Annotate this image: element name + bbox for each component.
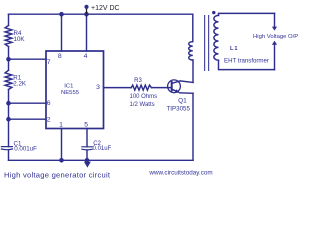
wire: +12V top rail <box>9 13 193 15</box>
svg-text:8: 8 <box>58 53 62 60</box>
transistor Q1 base bar <box>171 82 173 91</box>
svg-text:High Voltage O/P: High Voltage O/P <box>253 34 298 40</box>
power +12V stub dot <box>84 5 88 9</box>
svg-text:2: 2 <box>47 116 51 123</box>
transistor Q1 emitter arrowhead <box>175 89 180 93</box>
wire: pin 8 drop from rail <box>61 14 63 51</box>
wire: R4 to R1 <box>8 47 10 71</box>
wire: pin 2 <box>9 118 47 120</box>
svg-text:1/2 Watts: 1/2 Watts <box>130 102 155 108</box>
ground symbol arrow under C2 <box>84 162 91 168</box>
svg-text:www.circuitstoday.com: www.circuitstoday.com <box>148 169 212 176</box>
svg-text:NE555: NE555 <box>61 90 80 96</box>
wire: pin 1 drop to ground rail <box>61 129 63 161</box>
wire: output bottom arrow stem <box>274 45 276 70</box>
svg-text:0.001uF: 0.001uF <box>14 146 37 153</box>
wire: emitter vertical to ground rail <box>192 93 194 160</box>
wire: pin 6 <box>9 102 47 104</box>
svg-text:1: 1 <box>59 121 63 128</box>
svg-text:EHT transformer: EHT transformer <box>224 58 269 65</box>
junction dot: C2 at ground rail <box>85 158 90 163</box>
IC U1 box NE555 <box>46 51 104 129</box>
wire: left column top (rail to R4) <box>8 14 10 25</box>
wire: output top arrow stem <box>274 13 276 27</box>
svg-text:100 Ohms: 100 Ohms <box>130 94 158 100</box>
power +12V DC stub <box>86 7 88 14</box>
transistor Q1 circle <box>168 80 181 93</box>
junction dot: pin2 node on left column <box>6 117 11 122</box>
svg-text:10K: 10K <box>14 36 26 43</box>
transistor Q1 emitter lead <box>172 89 193 93</box>
svg-text:Q1: Q1 <box>178 98 187 105</box>
wire: pin 5 drop to C2 <box>86 129 88 147</box>
wire: C1 to bottom rail corner <box>8 150 10 160</box>
junction dot: pin7 node on left column <box>6 57 11 62</box>
resistor R3 <box>131 85 151 90</box>
wire: secondary top to output corner <box>219 13 275 15</box>
wire: bottom ground rail <box>9 159 194 161</box>
wire: R3 to Q1 base <box>151 87 171 89</box>
transistor Q1 collector lead <box>172 81 193 84</box>
resistor R1 <box>5 70 12 89</box>
junction dot: pin6 node on left column <box>6 101 11 106</box>
wire: pin 4 drop from rail <box>86 14 88 51</box>
junction dot: pin8 at top rail <box>59 12 64 17</box>
capacitor C1 <box>1 147 12 150</box>
wire: collector vertical to transformer primary <box>192 60 194 82</box>
svg-text:7: 7 <box>47 59 51 66</box>
output bottom arrowhead (up) <box>272 41 277 45</box>
junction dot: +12V stub at top rail <box>84 12 89 17</box>
svg-text:+12V DC: +12V DC <box>91 5 120 12</box>
wire: secondary bottom to output <box>219 60 275 69</box>
junction dot: pin1 at ground rail <box>59 158 64 163</box>
output top arrowhead (down) <box>272 27 277 31</box>
svg-text:TIP3055: TIP3055 <box>167 106 191 113</box>
svg-text:L1: L1 <box>230 46 239 52</box>
svg-text:2.2K: 2.2K <box>13 81 27 88</box>
svg-text:5: 5 <box>84 121 88 128</box>
resistor R4 <box>5 26 12 47</box>
wire: top rail corner down to primary coil <box>192 14 194 41</box>
svg-text:6: 6 <box>47 100 51 107</box>
wire: pin 7 <box>9 58 47 60</box>
svg-text:High voltage generator circuit: High voltage generator circuit <box>4 171 111 180</box>
inductor L1 primary coil <box>189 42 193 60</box>
svg-text:IC1: IC1 <box>64 84 73 90</box>
inductor L1 secondary coil <box>214 15 219 60</box>
wire: R1 down to C1 <box>8 90 10 147</box>
wire: pin 3 output <box>104 87 132 89</box>
capacitor C2 <box>82 147 92 150</box>
wire: C2 to ground rail <box>86 150 88 160</box>
svg-text:R3: R3 <box>134 78 142 84</box>
svg-text:4: 4 <box>84 53 88 60</box>
transformer phase dot <box>212 11 215 14</box>
transformer core lines <box>205 15 209 71</box>
svg-text:0.01uF: 0.01uF <box>93 146 112 152</box>
svg-text:3: 3 <box>96 84 100 91</box>
